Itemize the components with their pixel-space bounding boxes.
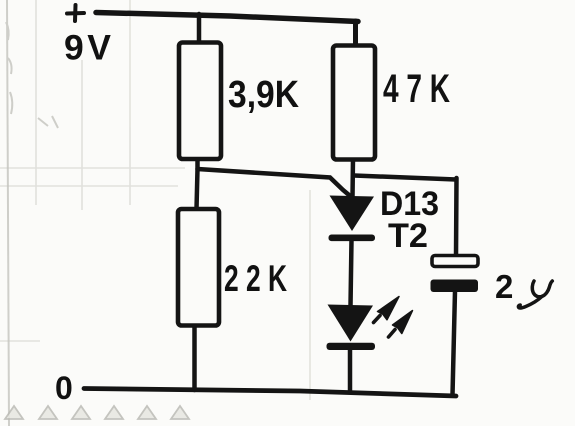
svg-text:4 7 K: 4 7 K [383, 67, 450, 111]
svg-text:T2: T2 [388, 217, 428, 255]
svg-text:2: 2 [495, 268, 513, 305]
svg-text:9V: 9V [64, 28, 114, 68]
svg-text:0: 0 [55, 370, 73, 406]
svg-text:3,9K: 3,9K [228, 74, 299, 116]
svg-text:2 2 K: 2 2 K [224, 258, 287, 299]
